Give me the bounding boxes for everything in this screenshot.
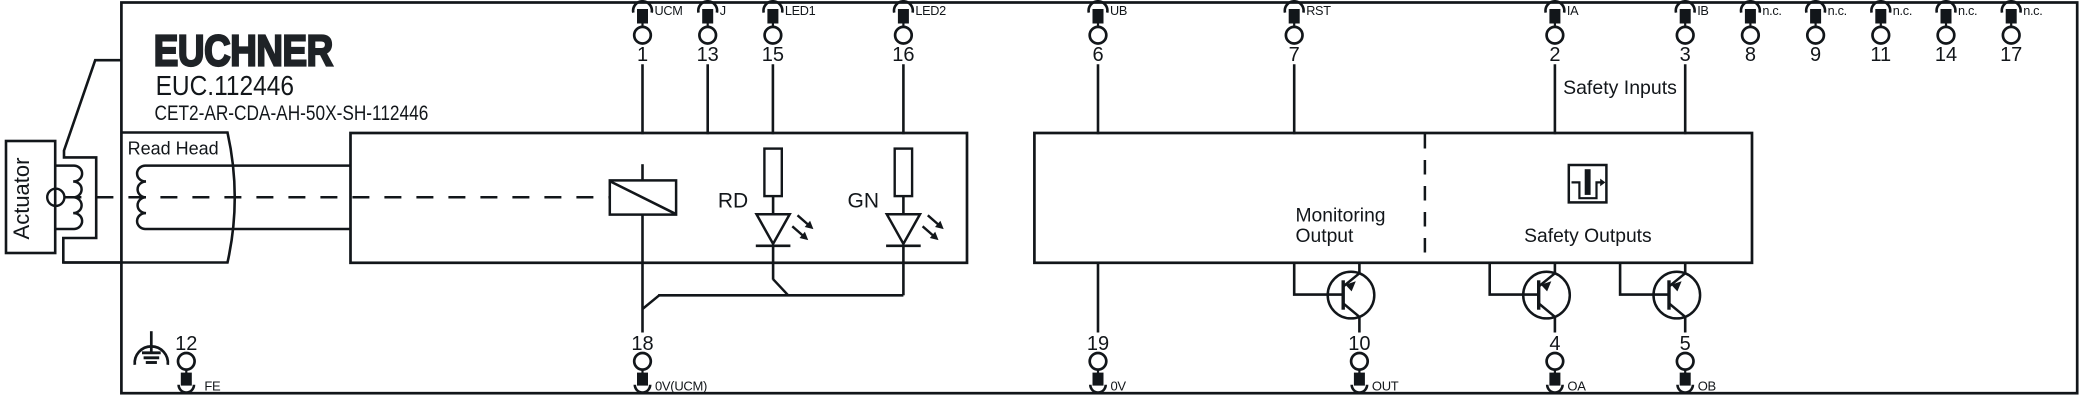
svg-text:4: 4 xyxy=(1549,333,1560,355)
functional earth ground symbol xyxy=(135,331,168,365)
svg-text:14: 14 xyxy=(1935,44,1957,66)
svg-text:2: 2 xyxy=(1549,44,1560,66)
LED2 GN (green diode) xyxy=(887,214,920,244)
transistor Q5 (PNP output) xyxy=(1654,272,1701,319)
svg-text:n.c.: n.c. xyxy=(1893,4,1912,18)
LED return bus wire xyxy=(658,294,903,297)
terminal 6 (UB) top plug symbol xyxy=(1089,1,1127,66)
svg-text:IA: IA xyxy=(1567,4,1579,18)
wire resistor R2 to LED2 xyxy=(902,196,905,214)
0V jog from relay wire to LED return bus xyxy=(643,295,660,309)
wire RST/base feed for transistor 10 xyxy=(1294,263,1343,295)
wire from module box to terminal 19 xyxy=(1097,263,1100,333)
terminal 9 (n.c.) top plug symbol xyxy=(1806,1,1847,66)
svg-text:Safety Inputs: Safety Inputs xyxy=(1563,77,1677,99)
svg-text:0V(UCM): 0V(UCM) xyxy=(655,378,707,393)
svg-text:15: 15 xyxy=(762,44,784,66)
svg-text:17: 17 xyxy=(2000,44,2022,66)
collector wire from Q5 to terminal 5 xyxy=(1684,316,1687,332)
relay bottom wire down to terminal 18 xyxy=(641,215,644,333)
svg-text:Monitoring: Monitoring xyxy=(1296,205,1386,226)
svg-text:J: J xyxy=(720,4,726,18)
wire resistor R1 to LED1 xyxy=(772,196,775,214)
svg-text:8: 8 xyxy=(1745,44,1756,66)
emitter wire from module box to Q4 xyxy=(1554,263,1557,274)
wire from terminal 16 down to module box xyxy=(902,64,905,134)
collector wire from Q4 to terminal 4 xyxy=(1554,316,1557,332)
terminal 1 (UCM) top plug symbol xyxy=(633,1,682,66)
wire LED2 cathode to return bus xyxy=(902,246,905,295)
wire RST/base feed for transistor 4 xyxy=(1490,263,1539,295)
terminal 7 (RST) top plug symbol xyxy=(1285,1,1331,66)
terminal 4 (OA) bottom plug symbol xyxy=(1547,333,1587,394)
terminal 15 (LED1) top plug symbol xyxy=(762,1,816,66)
svg-text:RST: RST xyxy=(1306,4,1331,18)
svg-text:0V: 0V xyxy=(1111,378,1127,393)
svg-text:OB: OB xyxy=(1698,378,1716,393)
wire RST/base feed for transistor 5 xyxy=(1620,263,1669,295)
svg-text:LED2: LED2 xyxy=(915,4,946,18)
terminal 14 (n.c.) top plug symbol xyxy=(1935,1,1977,66)
dashed magnetic coupling centre line xyxy=(64,196,609,199)
actuator coil L1 (transponder coil, 4 humps) xyxy=(55,166,82,229)
actuator body rectangle xyxy=(6,141,55,253)
svg-text:GN: GN xyxy=(848,190,880,213)
svg-text:Output: Output xyxy=(1296,226,1355,247)
svg-text:n.c.: n.c. xyxy=(1762,4,1781,18)
svg-text:UB: UB xyxy=(1110,4,1127,18)
LED1 RD (red diode) xyxy=(757,214,790,244)
relay top stub wire xyxy=(641,164,644,180)
svg-text:11: 11 xyxy=(1870,44,1891,66)
svg-text:Actuator: Actuator xyxy=(9,158,34,240)
svg-text:9: 9 xyxy=(1810,44,1821,66)
terminal 19 (0V) bottom plug symbol xyxy=(1087,333,1127,394)
svg-text:FE: FE xyxy=(199,378,221,393)
dashed divider between monitoring and safety sections xyxy=(1424,134,1427,262)
actuator mounting plate outline xyxy=(63,60,121,262)
svg-text:IB: IB xyxy=(1697,4,1708,18)
pulsed output icon xyxy=(1569,165,1607,202)
terminal 13 (J) top plug symbol xyxy=(697,1,726,66)
wire from terminal 15 down to module box xyxy=(772,64,775,134)
wire from terminal 2 down to module box xyxy=(1554,64,1557,134)
svg-text:10: 10 xyxy=(1348,333,1370,355)
svg-text:18: 18 xyxy=(631,333,653,355)
read head coil L2 (4 humps) xyxy=(137,166,350,229)
svg-text:n.c.: n.c. xyxy=(1828,4,1847,18)
svg-text:OA: OA xyxy=(1567,378,1586,393)
svg-text:16: 16 xyxy=(892,44,914,66)
resistor R2 (LED2 series) xyxy=(895,149,912,197)
electronics module box 1 xyxy=(351,133,968,263)
resistor R1 (LED1 series) xyxy=(764,149,781,197)
svg-text:12: 12 xyxy=(175,333,197,355)
collector wire from Q10 to terminal 10 xyxy=(1358,316,1361,332)
svg-text:n.c.: n.c. xyxy=(1958,4,1977,18)
svg-text:LED1: LED1 xyxy=(785,4,816,18)
emitter wire from module box to Q10 xyxy=(1358,263,1361,274)
svg-text:3: 3 xyxy=(1680,44,1691,66)
svg-text:RD: RD xyxy=(718,190,748,213)
svg-text:7: 7 xyxy=(1289,44,1300,66)
transistor Q4 (PNP output) xyxy=(1523,272,1570,319)
svg-text:OUT: OUT xyxy=(1372,378,1399,393)
wire LED1 cathode down through box xyxy=(772,246,775,280)
terminal 3 (IB) top plug symbol xyxy=(1676,1,1709,66)
terminal 11 (n.c.) top plug symbol xyxy=(1870,1,1912,66)
svg-text:19: 19 xyxy=(1087,333,1109,355)
electronics module box 2 xyxy=(1034,133,1752,263)
svg-text:Read Head: Read Head xyxy=(128,139,219,159)
terminal 5 (OB) bottom plug symbol xyxy=(1677,333,1716,394)
svg-text:CET2-AR-CDA-AH-50X-SH-112446: CET2-AR-CDA-AH-50X-SH-112446 xyxy=(155,101,429,125)
terminal 12 (FE) bottom plug symbol xyxy=(175,333,221,394)
wire from terminal 1 down to module box xyxy=(641,64,644,134)
svg-text:EUCHNER: EUCHNER xyxy=(154,27,333,75)
transistor Q10 (PNP output) xyxy=(1328,272,1375,319)
svg-text:13: 13 xyxy=(697,44,719,66)
svg-text:n.c.: n.c. xyxy=(2023,4,2042,18)
terminal 8 (n.c.) top plug symbol xyxy=(1741,1,1782,66)
terminal 16 (LED2) top plug symbol xyxy=(892,1,946,66)
terminal 18 (0V(UCM)) bottom plug symbol xyxy=(631,333,707,394)
svg-text:6: 6 xyxy=(1092,44,1103,66)
terminal 17 (n.c.) top plug symbol xyxy=(2000,1,2042,66)
svg-text:5: 5 xyxy=(1680,333,1691,355)
relay K1 (coil with diagonal) xyxy=(610,180,676,214)
wire from terminal 7 down to module box xyxy=(1293,64,1296,134)
svg-text:Safety Outputs: Safety Outputs xyxy=(1524,226,1652,247)
svg-text:UCM: UCM xyxy=(655,4,683,18)
wire from terminal 6 down to module box xyxy=(1097,64,1100,134)
read head housing box with curved edge xyxy=(63,133,234,263)
wire from terminal 13 down to module box xyxy=(706,64,709,134)
actuator pivot circle xyxy=(47,189,64,206)
terminal 2 (IA) top plug symbol xyxy=(1545,1,1579,66)
terminal 10 (OUT) bottom plug symbol xyxy=(1348,333,1399,394)
svg-text:EUC.112446: EUC.112446 xyxy=(156,69,294,101)
svg-text:1: 1 xyxy=(637,44,648,66)
jog LED1 wire to return bus xyxy=(773,279,788,295)
wire from terminal 3 down to module box xyxy=(1684,64,1687,134)
emitter wire from module box to Q5 xyxy=(1684,263,1687,274)
